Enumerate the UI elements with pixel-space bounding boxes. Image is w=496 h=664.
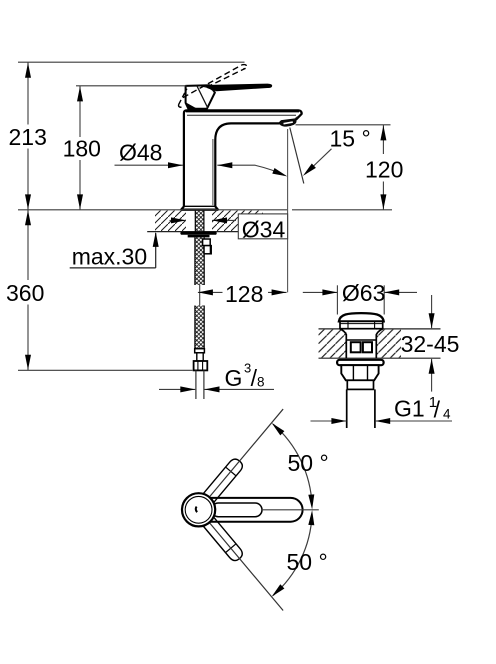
water stream line <box>290 128 304 184</box>
base plate top line <box>184 205 215 207</box>
lever arm <box>205 84 273 92</box>
dim O48 arrow left <box>168 162 183 168</box>
max30 arrow <box>153 232 159 247</box>
svg-text:213: 213 <box>9 124 47 150</box>
svg-text:32-45: 32-45 <box>401 331 460 357</box>
raised lever dashed back <box>179 89 187 108</box>
dim O48 arrow right <box>217 162 232 168</box>
hose fitting block <box>203 239 212 254</box>
hose neck <box>197 353 203 361</box>
hose shoulder <box>195 349 205 353</box>
15deg leader line <box>305 149 331 174</box>
lever housing <box>186 85 215 109</box>
dim 360 arrow bottom <box>25 355 31 370</box>
drain slab bottom line <box>319 357 441 359</box>
svg-text:Ø34: Ø34 <box>242 216 286 242</box>
aerator <box>279 119 296 127</box>
svg-text:Ø48: Ø48 <box>119 140 162 166</box>
threaded shank <box>195 210 204 232</box>
svg-text:G1: G1 <box>394 395 425 421</box>
mounting washer <box>180 232 216 235</box>
countertop hatch right <box>212 211 263 232</box>
raised lever dashed line 1 <box>183 65 242 98</box>
dim 128 arrow right <box>272 289 287 295</box>
dim 180 arrow top <box>77 86 83 101</box>
180 extension line <box>76 85 187 87</box>
drain body line <box>346 339 376 341</box>
lower arc arrow outer <box>272 584 285 597</box>
body right highlight line <box>212 139 214 205</box>
vertical reference line <box>287 129 289 292</box>
drain overflow window right <box>363 342 372 352</box>
spout top inner line <box>187 114 296 116</box>
dim O34 arrow left <box>170 219 187 221</box>
lower 50deg ray <box>208 521 284 611</box>
dim 32-45 line bottom <box>431 359 433 392</box>
top view lever rotated up 50 <box>202 457 245 504</box>
drain countertop hatch <box>319 330 347 358</box>
15deg leader arrow <box>303 164 316 176</box>
O34 label box <box>238 214 287 239</box>
label G1-1/4 <box>394 394 451 423</box>
lever housing fold line <box>197 86 208 108</box>
countertop hatch left <box>155 211 186 232</box>
upper arc arrow outer <box>272 423 285 436</box>
dim 128 arrow left <box>198 289 213 295</box>
hose end nut G3/8 <box>194 361 208 370</box>
dim 120 line <box>382 125 384 154</box>
spout top edge thickener <box>186 111 299 113</box>
drain slab top line <box>319 328 441 330</box>
mounting nut <box>188 235 210 238</box>
dim 213 arrow top <box>25 63 31 78</box>
dim O48 line right <box>217 164 255 166</box>
15deg arc <box>256 165 285 175</box>
lower arc arrow inner <box>308 510 314 525</box>
dim 120 arrow top <box>380 125 386 140</box>
G3/8 thread walls <box>195 370 197 399</box>
dim 32-45 arrow top <box>429 313 435 328</box>
15deg arc arrow <box>272 168 287 176</box>
svg-text:4: 4 <box>443 406 451 421</box>
lower 50deg arc <box>273 515 312 596</box>
drain cap band <box>340 321 383 328</box>
drain cap dome <box>339 313 384 321</box>
drain tailpipe <box>346 389 348 428</box>
svg-text:360: 360 <box>6 280 44 306</box>
360 bottom extension line <box>18 369 193 371</box>
dim G1-1/4 arrow right <box>375 420 452 422</box>
max30 leader <box>155 233 157 268</box>
svg-text:50 °: 50 ° <box>288 450 329 476</box>
svg-text:max.30: max.30 <box>72 243 147 269</box>
drain neck <box>347 380 373 389</box>
svg-text:8: 8 <box>257 374 265 389</box>
120 top extension line <box>296 124 391 126</box>
top view lever <box>199 498 303 522</box>
svg-text:128: 128 <box>225 281 263 307</box>
dim 128 line <box>198 291 223 293</box>
braided hose lower <box>195 306 204 349</box>
top view body circle <box>182 493 215 526</box>
svg-text:15 °: 15 ° <box>330 125 371 151</box>
dim G3/8 arrow right <box>205 388 275 390</box>
dim 360 line <box>27 210 29 280</box>
spout tip chamfer line <box>293 117 298 121</box>
dim 213 arrow bottom <box>25 194 31 209</box>
countertop bottom line <box>147 231 263 233</box>
dim 32-45 arrow bottom <box>429 359 435 374</box>
dim G3/8 arrow left <box>159 388 195 390</box>
svg-text:/: / <box>434 397 441 423</box>
dim G1-1/4 arrow left <box>311 420 347 422</box>
max30 underline <box>70 267 156 269</box>
mounting plane line <box>18 209 288 211</box>
label G3/8 <box>225 361 265 391</box>
lever housing foot <box>186 103 197 109</box>
svg-text:120: 120 <box>365 157 403 183</box>
top view lever rotated down 50 <box>202 516 245 563</box>
base plate bottom <box>181 209 218 211</box>
raised lever dashed tip <box>242 65 246 69</box>
O63 extension lines <box>336 285 338 314</box>
dim 32-45 line top <box>431 295 433 328</box>
raised lever dashed line 2 <box>207 68 246 87</box>
dim O63 arrow right <box>384 291 417 293</box>
dim 120 arrow bottom <box>380 194 386 209</box>
dim O48 line left <box>115 164 184 166</box>
drain overflow window left <box>351 342 361 352</box>
top view lever inner <box>212 503 263 517</box>
dim 213 line <box>27 62 29 124</box>
svg-text:Ø63: Ø63 <box>342 280 385 306</box>
top view centerline <box>262 509 319 511</box>
svg-text:G: G <box>225 365 243 391</box>
svg-text:180: 180 <box>63 136 101 162</box>
top view body circle inner <box>185 496 212 523</box>
dim 180 line <box>79 86 81 137</box>
faucet body and spout outline <box>181 110 302 209</box>
top view circle mark <box>196 507 197 513</box>
213 extension line top <box>18 61 245 63</box>
dim 360 arrow top <box>25 210 31 225</box>
hose break line <box>199 285 201 306</box>
dim O34 arrow right <box>212 219 236 221</box>
dim O63 arrow left <box>303 291 338 293</box>
svg-text:50 °: 50 ° <box>287 549 328 575</box>
upper arc arrow inner <box>308 494 314 509</box>
drain body flare <box>340 329 383 358</box>
upper 50deg ray <box>208 409 284 499</box>
drain washer <box>337 360 384 365</box>
dim 180 arrow bottom <box>77 194 83 209</box>
upper 50deg arc <box>273 424 312 505</box>
lever housing curve <box>204 86 215 92</box>
drain hex nut <box>341 365 378 380</box>
braided hose upper <box>195 237 204 285</box>
